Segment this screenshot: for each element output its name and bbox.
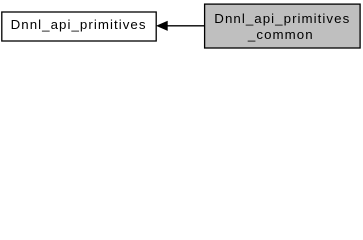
svg-text:Dnnl_api_primitives: Dnnl_api_primitives [214,11,350,26]
edge wire: Dnnl_api_primitives_common -> Dnnl_api_primitives [167,25,205,27]
node Dnnl_api_primitives_common (box, selected/grey) [205,4,361,48]
svg-text:Dnnl_api_primitives: Dnnl_api_primitives [11,17,147,32]
edge arrowhead [157,22,167,31]
node Dnnl_api_primitives (box) [2,12,156,41]
svg-text:_common: _common [247,27,314,42]
